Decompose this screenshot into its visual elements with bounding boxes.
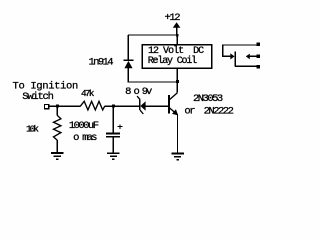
svg-text:o mas: o mas [73, 132, 97, 144]
svg-text:47k: 47k [81, 88, 95, 99]
svg-text:1n914: 1n914 [89, 56, 114, 68]
svg-text:1000uF: 1000uF [69, 120, 99, 132]
svg-text:Relay Coil: Relay Coil [148, 55, 198, 67]
svg-text:+12: +12 [165, 12, 181, 24]
svg-text:10k: 10k [26, 124, 39, 135]
svg-text:Switch: Switch [22, 91, 54, 103]
svg-text:or 2N2222: or 2N2222 [184, 105, 234, 117]
svg-text:8 o 9v: 8 o 9v [125, 86, 152, 98]
svg-text:2N3053: 2N3053 [193, 93, 223, 105]
